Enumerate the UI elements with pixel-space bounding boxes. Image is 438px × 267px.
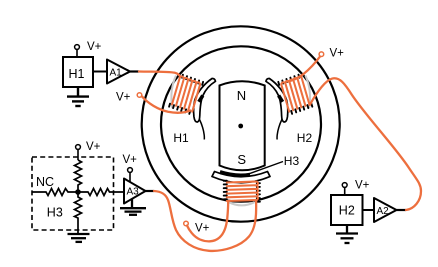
wire H2 box to A2 [363, 209, 375, 211]
hall sensor H1 box [63, 57, 93, 87]
junction node dot [75, 189, 81, 195]
pole shoe (upper-left) [194, 78, 216, 122]
svg-text:V+: V+ [87, 41, 102, 53]
coil L3 (bottom) winding turns [227, 182, 258, 202]
resistor R-top (vertical zigzag) [75, 160, 82, 192]
coil L3 (bottom) hidden back turn (grey) [228, 202, 255, 206]
ground (H2 box) [336, 225, 358, 243]
hall element bar H2 [279, 96, 283, 102]
wire V+ to coil L2 top-left lead [288, 57, 320, 82]
dashed box (H3 sensor equivalent) [32, 157, 114, 230]
V+ terminal circle (H2 supply) [342, 183, 347, 188]
hall sensor H2 box [331, 195, 363, 225]
coil L1 (upper-left) hidden back turn (grey) [171, 76, 176, 109]
svg-text:NC: NC [36, 175, 54, 189]
resistor R-bottom (vertical zigzag) [75, 192, 82, 234]
wire A3 output sweep to coil L3 right lead [154, 191, 256, 251]
V+ terminal circle (H3 network) [76, 145, 81, 150]
coil L2 (upper-right) wire wrap dashes [278, 75, 312, 114]
svg-text:H2: H2 [297, 131, 313, 145]
wire A2 output stub [397, 209, 407, 211]
V+ terminal circle (H1 supply) [75, 45, 80, 50]
wire V+ into dashed box [77, 150, 79, 160]
wire A1 output stub [130, 70, 139, 72]
svg-text:V+: V+ [86, 141, 101, 153]
svg-text:H1: H1 [69, 67, 85, 81]
wire coil L2 bottom lead to A2 (long right wire) [310, 78, 421, 210]
svg-text:H3: H3 [47, 206, 63, 220]
wire A1 output to coil L1 top-left lead [139, 72, 180, 77]
resistor R-right (horizontal zigzag) [78, 189, 124, 196]
ground (A3) [120, 199, 146, 215]
svg-text:V+: V+ [116, 92, 131, 104]
rotor magnet body [220, 81, 265, 170]
svg-text:H1: H1 [173, 131, 189, 145]
ground (H3 network) [68, 234, 90, 242]
svg-text:V+: V+ [195, 223, 210, 235]
coil L1 (upper-left) winding turns [172, 77, 200, 112]
ground (H1 box) [67, 87, 89, 106]
svg-text:H3: H3 [284, 154, 300, 168]
pole shoe (bottom) [212, 172, 270, 183]
svg-text:V+: V+ [330, 47, 345, 59]
wire V+ to H2 box [344, 188, 346, 195]
op-amp A1 [107, 60, 130, 84]
label H3 pointer line [249, 162, 283, 174]
V+ terminal circle (coil L3 feed) [184, 221, 189, 226]
svg-text:A2: A2 [377, 206, 390, 217]
svg-text:V+: V+ [355, 180, 370, 192]
pole shoe trailing lip (upper-left) [199, 119, 204, 140]
coil L2 (upper-right) winding turns [281, 77, 309, 112]
wire V+ to H1 box [76, 50, 78, 57]
wire A3 output stub [146, 190, 155, 192]
wire V+ to coil L1 bottom-right lead [142, 96, 191, 112]
coil L1 (upper-left) wire wrap dashes [169, 75, 203, 114]
hall element bar H1 [199, 96, 203, 102]
svg-text:N: N [237, 88, 246, 103]
wire V+ to coil L3 left lead [187, 202, 228, 242]
V+ terminal circle (coil L2 feed) [319, 52, 324, 57]
svg-text:A3: A3 [127, 187, 140, 198]
op-amp A2 [374, 198, 397, 222]
V+ terminal circle (coil L1 feed) [137, 93, 142, 98]
pole shoe trailing lip (upper-right) [277, 119, 282, 140]
coil L2 (upper-right) hidden back turn (grey) [305, 76, 310, 109]
resistor R-left (horizontal zigzag, NC) [32, 189, 78, 196]
outer stator circle [142, 26, 340, 221]
pole shoe (upper-right) [266, 78, 288, 122]
svg-text:V+: V+ [123, 154, 138, 166]
coil L3 (bottom) wire wrap dashes [224, 181, 260, 202]
svg-text:A1: A1 [110, 68, 123, 79]
svg-text:H2: H2 [339, 204, 355, 218]
wire V+ to A3 [129, 173, 131, 182]
inner stator circle [161, 46, 321, 201]
rotor shaft dot [238, 124, 243, 129]
V+ terminal circle (A3 supply) [128, 168, 133, 173]
hall element bar H3 (under rotor) [220, 172, 250, 175]
op-amp A3 [124, 179, 146, 204]
svg-text:S: S [237, 152, 246, 167]
wire H1 box to A1 [93, 71, 107, 73]
